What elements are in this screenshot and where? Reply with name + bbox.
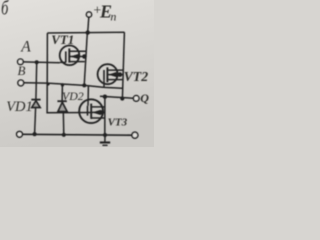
svg-text:б: б bbox=[1, 0, 9, 19]
svg-text:VT1: VT1 bbox=[51, 32, 74, 47]
svg-text:A: A bbox=[20, 39, 31, 56]
svg-text:VD2: VD2 bbox=[62, 89, 84, 103]
svg-text:VT3: VT3 bbox=[108, 117, 128, 129]
svg-text:п: п bbox=[110, 9, 116, 23]
svg-text:Q: Q bbox=[140, 91, 149, 105]
svg-text:VT2: VT2 bbox=[124, 69, 149, 84]
svg-text:B: B bbox=[18, 63, 26, 78]
svg-text:VD1: VD1 bbox=[6, 99, 33, 115]
